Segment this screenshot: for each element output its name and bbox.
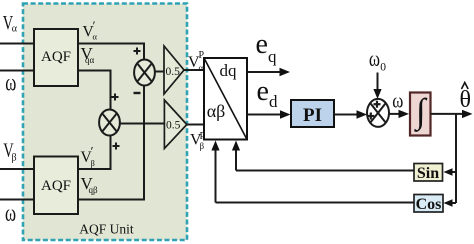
arrow into dq block bottom from Cos path <box>211 141 219 203</box>
wire into Cos with arrow <box>444 199 457 207</box>
svg-text:β: β <box>200 141 205 151</box>
svg-text:AQF: AQF <box>41 178 71 194</box>
svg-text:Sin: Sin <box>417 165 439 182</box>
svg-text:ω: ω <box>392 90 403 113</box>
label V_qalpha <box>81 44 95 65</box>
svg-text:α: α <box>12 24 18 35</box>
gain block G2 0.5 <box>164 100 186 149</box>
block Sin <box>414 164 443 183</box>
minus sign S1 bottom <box>134 92 141 94</box>
label V_alpha^P <box>188 50 205 73</box>
wire e_q output with arrow <box>247 68 290 76</box>
svg-text:ω: ω <box>5 201 16 226</box>
svg-text:e: e <box>257 76 269 107</box>
wire G2 to dq block <box>187 124 204 126</box>
svg-text:AQF Unit: AQF Unit <box>79 222 134 237</box>
svg-text:PI: PI <box>303 105 322 126</box>
svg-text:d: d <box>269 92 278 111</box>
wire S3 to integrator with arrow <box>388 110 409 118</box>
svg-text:q: q <box>268 47 277 66</box>
svg-text:qα: qα <box>85 55 95 65</box>
label V_qbeta <box>81 174 99 195</box>
plus sign S3 left <box>367 113 374 120</box>
label V_alpha <box>3 11 18 35</box>
svg-text:β: β <box>91 158 95 168</box>
block AQF top <box>34 29 78 86</box>
label V_beta <box>3 138 16 163</box>
AQF Unit dashed container <box>23 4 187 241</box>
plus sign S1 top <box>134 48 141 55</box>
wire omega_0 down into summer S3 with arrow <box>373 73 381 100</box>
svg-text:Cos: Cos <box>416 196 442 213</box>
wire V_qalpha from AQF down to summer S2 <box>78 71 111 111</box>
summing junction S3 <box>367 99 389 127</box>
svg-text:αβ: αβ <box>207 101 226 121</box>
label V'_alpha <box>83 18 98 42</box>
svg-text:dq: dq <box>220 61 238 80</box>
wire integrator output theta with arrow <box>431 110 473 118</box>
summing junction S2 <box>99 110 120 136</box>
wire Sin output back to dq block <box>236 170 414 172</box>
wire into Sin with arrow <box>444 168 457 176</box>
svg-text:0.5: 0.5 <box>166 120 181 132</box>
wire G1 to dq block <box>184 69 204 71</box>
wire input V_alpha <box>0 43 34 45</box>
label omega top <box>5 71 16 96</box>
wire input omega top <box>0 70 34 72</box>
wire e_d output to PI with arrow <box>247 110 291 118</box>
svg-text:θ: θ <box>460 87 472 113</box>
block Cos <box>414 195 443 214</box>
wire input V_beta <box>0 168 34 170</box>
label V_beta^P <box>190 131 206 151</box>
wire V'_beta from AQF up to summer S2 <box>78 134 111 169</box>
wire input omega bottom <box>0 199 34 201</box>
svg-text:e: e <box>256 29 268 60</box>
block AQF bottom <box>34 157 78 215</box>
svg-text:0.5: 0.5 <box>166 66 181 78</box>
summing junction S1 <box>134 60 155 86</box>
label omega_0 <box>369 48 386 74</box>
svg-text:α: α <box>199 63 204 73</box>
label e_q <box>256 29 278 66</box>
wire feedback vertical from theta line <box>455 114 457 203</box>
plus sign S2 bottom <box>113 143 120 150</box>
svg-text:AQF: AQF <box>41 49 71 65</box>
svg-text:ω: ω <box>369 48 380 72</box>
block dq/alphabeta transform U1 <box>204 58 247 140</box>
wire Cos output back to dq block <box>216 202 415 204</box>
label V'_beta <box>81 144 95 169</box>
label e_d <box>257 76 279 111</box>
svg-text:α: α <box>93 32 98 42</box>
wire S2 to gain G2 <box>120 123 164 125</box>
wire V'_alpha from AQF to top of summer S1 <box>78 44 144 61</box>
arrow into dq block bottom from Sin path <box>232 141 240 171</box>
plus sign S3 top <box>374 101 381 108</box>
svg-text:ω: ω <box>5 71 16 96</box>
block integrator <box>410 92 431 136</box>
label omega bottom <box>5 201 16 226</box>
svg-text:′: ′ <box>91 144 94 159</box>
wire PI to summer S3 with arrow <box>334 110 367 118</box>
plus sign S2 top <box>112 94 119 101</box>
label omega <box>392 90 403 113</box>
gain block G1 0.5 <box>164 46 184 94</box>
label theta hat <box>460 83 472 114</box>
wire V_qbeta from AQF right then up to summer S1 minus input <box>78 85 144 200</box>
svg-text:qβ: qβ <box>89 185 99 195</box>
block PI controller <box>291 100 334 127</box>
svg-text:0: 0 <box>380 62 386 74</box>
svg-text:β: β <box>12 153 17 164</box>
wire S1 to gain G1 <box>155 71 164 73</box>
